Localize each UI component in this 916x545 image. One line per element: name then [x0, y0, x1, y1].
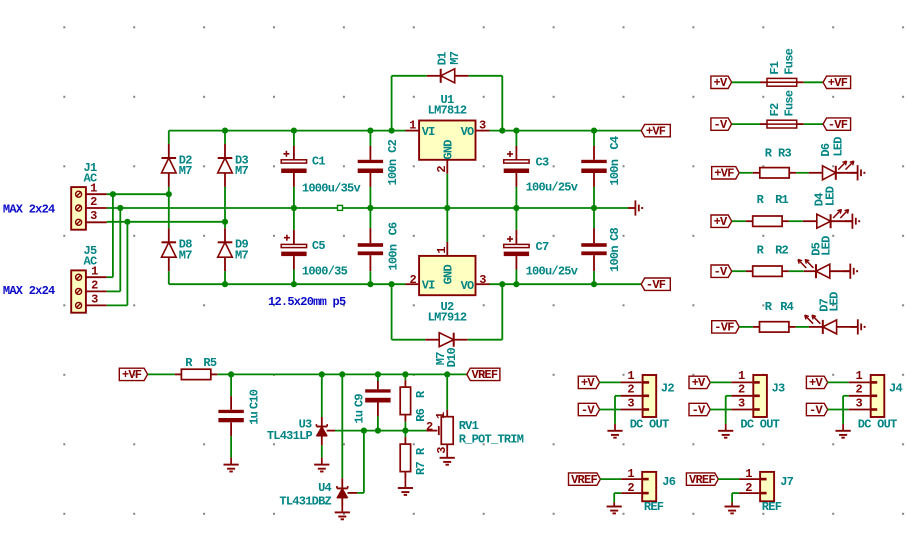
wire R4 in: [739, 326, 753, 328]
junction D1 left: [389, 128, 395, 134]
svg-text:-VF: -VF: [646, 278, 666, 292]
svg-text:VREF: VREF: [571, 473, 597, 487]
capacitor C6: [358, 208, 401, 271]
svg-text:RV1: RV1: [459, 419, 479, 433]
label +V (fuse F1): [711, 76, 732, 90]
ground D5: [843, 264, 857, 279]
label -V (fuse F2): [711, 118, 732, 132]
wire D2 anode: [168, 187, 170, 194]
wire AC2 mid rail: [107, 207, 628, 209]
svg-text:Fuse: Fuse: [782, 48, 796, 74]
wire J4.2 gnd: [843, 396, 871, 431]
no-connect square: [338, 205, 343, 210]
svg-text:VREF: VREF: [472, 368, 498, 382]
junction R6 top: [402, 371, 408, 377]
wire J2.2 gnd: [615, 396, 643, 431]
wire C10 gnd: [230, 436, 232, 464]
svg-text:3: 3: [91, 292, 98, 306]
label -V (R2 row): [711, 265, 732, 279]
wire R2-D5: [789, 270, 804, 272]
svg-text:R3: R3: [778, 146, 791, 160]
svg-text:100u/25v: 100u/25v: [526, 265, 578, 279]
svg-text:LED: LED: [831, 137, 845, 157]
wire R6 top: [404, 374, 406, 387]
wire R2 in: [732, 270, 746, 272]
wire R3 in: [739, 172, 753, 174]
wire RV1 pin1: [446, 374, 448, 416]
resistor R6: [400, 387, 428, 422]
svg-text:VREF: VREF: [689, 473, 715, 487]
junction C9 top: [375, 371, 381, 377]
svg-text:MAX 2x24: MAX 2x24: [3, 203, 55, 217]
svg-text:LED: LED: [820, 236, 834, 256]
svg-text:100u/25v: 100u/25v: [526, 180, 578, 194]
text 12.5x20mm p5: [268, 295, 346, 309]
junction C7 bottom: [513, 281, 519, 287]
connector J6: [627, 467, 675, 514]
junction D3 top: [222, 128, 228, 134]
svg-text:M7: M7: [179, 164, 192, 178]
svg-text:1: 1: [627, 369, 634, 383]
svg-text:DC OUT: DC OUT: [630, 417, 669, 431]
svg-text:J2: J2: [661, 381, 674, 395]
svg-text:2: 2: [90, 195, 97, 209]
svg-text:C2: C2: [386, 139, 400, 152]
label VREF (J7): [686, 473, 718, 487]
junction C3 top: [513, 128, 519, 134]
wire top rail: [169, 131, 406, 144]
junction R6/R7: [402, 428, 408, 434]
junction C9 bottom: [375, 428, 381, 434]
value 1000u/35v: [302, 182, 361, 196]
svg-text:C5: C5: [312, 239, 325, 253]
wire F2 in: [732, 123, 760, 125]
wire +VF-R5: [148, 373, 175, 375]
wire D3 anode: [224, 187, 226, 222]
svg-text:-VF: -VF: [714, 321, 734, 335]
svg-text:2: 2: [855, 383, 862, 397]
svg-text:C10: C10: [248, 389, 262, 409]
svg-text:J3: J3: [772, 381, 785, 395]
wire U4 cathode: [341, 374, 343, 488]
svg-text:M7: M7: [235, 248, 248, 262]
wire J6.2 gnd: [614, 493, 642, 506]
connector J4: [855, 369, 902, 431]
svg-text:3: 3: [479, 273, 486, 287]
svg-text:-V: -V: [714, 265, 728, 279]
svg-text:R1: R1: [775, 193, 788, 207]
label -V (J3): [689, 403, 710, 417]
regulator U2 LM7912: [406, 242, 490, 325]
svg-text:2: 2: [745, 481, 752, 495]
resistor R5: [175, 356, 217, 379]
svg-text:2: 2: [627, 383, 634, 397]
junction AC1/D2: [166, 191, 172, 197]
junction C2 top: [367, 128, 373, 134]
ground J7: [725, 507, 740, 514]
wire J3.1: [710, 381, 753, 383]
label -VF (fuse F2): [823, 118, 851, 132]
svg-text:1: 1: [434, 412, 448, 419]
ground U3: [314, 465, 329, 472]
wire R1 in: [732, 220, 746, 222]
svg-text:+VF: +VF: [828, 76, 848, 90]
wire J7.1: [718, 478, 760, 480]
wire U2 out rail: [490, 283, 642, 285]
wire RV1 pin3: [446, 444, 448, 458]
diode D1: [427, 51, 469, 83]
capacitor C8: [581, 208, 622, 272]
svg-text:12.5x20mm p5: 12.5x20mm p5: [268, 295, 346, 309]
junction D1 right: [499, 128, 505, 134]
ground R7: [398, 488, 413, 495]
junction D9 bottom: [222, 281, 228, 287]
svg-text:3: 3: [90, 209, 97, 223]
ground D7: [850, 319, 864, 334]
label +V (J4): [806, 376, 827, 390]
label +V (J3): [689, 376, 710, 390]
svg-text:3: 3: [627, 396, 634, 410]
junction J1.2: [117, 205, 123, 211]
svg-text:VO: VO: [461, 125, 474, 139]
svg-text:2: 2: [410, 273, 417, 287]
capacitor C4: [581, 131, 622, 187]
wire D10 right vertical: [468, 284, 503, 340]
svg-text:J7: J7: [780, 475, 793, 489]
svg-text:100n: 100n: [386, 159, 400, 185]
ground D6: [850, 165, 864, 180]
label -VF (R4 row): [712, 321, 740, 335]
wire U4 anode: [341, 498, 343, 513]
text MAX 2x24 (J5): [3, 284, 55, 298]
label -V (J4): [806, 403, 827, 417]
label -VF bottom: [641, 278, 670, 292]
junction C5 bottom: [291, 281, 297, 287]
wire J1.2-J5.2 vertical: [107, 208, 121, 291]
wire C6 bottom: [369, 271, 371, 284]
label VREF (J6): [569, 473, 601, 487]
ground J2: [607, 431, 622, 438]
label +V (R1 row): [711, 215, 732, 229]
junction C2 bottom: [367, 205, 373, 211]
svg-text:+VF: +VF: [714, 167, 734, 181]
wire D9 anode: [224, 271, 226, 284]
svg-text:M7: M7: [448, 51, 462, 64]
wire D1 left vertical: [392, 76, 427, 131]
svg-text:D10: D10: [445, 347, 459, 367]
junction C6 bottom: [367, 281, 373, 287]
wire F1 in: [732, 81, 760, 83]
svg-text:-V: -V: [581, 403, 595, 417]
wire C9 bottom: [377, 416, 379, 430]
svg-text:GND: GND: [442, 140, 456, 160]
wire J1.1-J5.1 vertical: [107, 194, 113, 277]
wire bottom rail: [169, 283, 406, 285]
junction U4 ref: [361, 428, 367, 434]
label VREF (right): [467, 368, 500, 382]
LED D4: [803, 186, 853, 228]
regulator U1 LM7812: [406, 93, 490, 174]
resistor R4: [753, 300, 796, 332]
label +VF top: [641, 124, 670, 138]
wire U3 ref: [327, 430, 427, 432]
wire U4 ref: [348, 431, 364, 493]
svg-text:VI: VI: [422, 279, 435, 293]
wire C5 bottom: [293, 270, 295, 285]
diode D10: [425, 333, 468, 368]
svg-text:C1: C1: [312, 155, 325, 169]
wire C8 bottom: [593, 271, 595, 284]
value 100u/25v (C3): [526, 180, 578, 194]
junction C4 top: [591, 128, 597, 134]
wire J1.3-J5.3 vertical: [107, 222, 128, 306]
resistor R3: [753, 146, 796, 178]
potentiometer RV1: [426, 412, 524, 454]
wire J4.1: [828, 381, 871, 383]
svg-text:M7: M7: [179, 248, 192, 262]
wire J2.3: [599, 409, 642, 411]
svg-text:1: 1: [435, 247, 449, 254]
ground mid rail: [628, 200, 642, 215]
wire AC1 rail: [107, 193, 169, 195]
resistor R1: [746, 193, 789, 226]
svg-text:1: 1: [409, 119, 416, 133]
svg-text:U4: U4: [318, 481, 331, 495]
ground U4: [335, 512, 350, 519]
svg-text:-V: -V: [714, 118, 728, 132]
svg-text:2: 2: [435, 166, 449, 173]
svg-text:1u: 1u: [352, 410, 366, 423]
junction J1.3: [124, 219, 130, 225]
junction U4 top: [339, 371, 345, 377]
svg-text:TL431DBZ: TL431DBZ: [279, 494, 331, 508]
svg-text:LED: LED: [827, 292, 841, 312]
wire C4 bottom: [593, 187, 595, 208]
capacitor C5: [281, 208, 325, 270]
junction D10 left: [389, 281, 395, 287]
diode D3: [218, 131, 249, 187]
svg-text:C8: C8: [608, 227, 622, 240]
capacitor C3: [504, 131, 549, 187]
wire D1 right vertical: [469, 76, 503, 131]
capacitor C9: [352, 374, 390, 423]
svg-text:+V: +V: [714, 215, 728, 229]
wire C7 bottom: [515, 270, 517, 285]
junction C1 top: [291, 128, 297, 134]
wire C2 bottom: [369, 187, 371, 208]
diode D2: [162, 144, 193, 187]
junction AC3/D3: [222, 219, 228, 225]
junction C1 bottom: [291, 205, 297, 211]
label +VF (fuse F1): [823, 76, 851, 90]
wire AC3 rail: [107, 221, 225, 223]
svg-text:3: 3: [738, 396, 745, 410]
svg-text:C3: C3: [536, 156, 549, 170]
junction C3 bottom: [513, 205, 519, 211]
junction RV1 top: [444, 371, 450, 377]
svg-text:-V: -V: [692, 403, 706, 417]
shunt reference U4 TL431DBZ: [279, 481, 347, 509]
svg-text:1: 1: [745, 467, 752, 481]
svg-text:1: 1: [90, 181, 97, 195]
wire R7 top: [404, 431, 406, 445]
svg-text:+V: +V: [714, 76, 728, 90]
svg-text:MAX 2x24: MAX 2x24: [3, 284, 55, 298]
capacitor C1: [281, 131, 325, 187]
value 1000/35: [302, 264, 348, 278]
wire R1-D4: [789, 220, 803, 222]
svg-text:R4: R4: [780, 300, 793, 314]
wire F1 out: [804, 81, 823, 83]
wire U2 gnd: [446, 208, 448, 242]
svg-text:100n: 100n: [386, 244, 400, 270]
svg-text:REF: REF: [762, 500, 782, 514]
wire R7 bottom: [404, 472, 406, 488]
text MAX 2x24 (J1): [3, 203, 55, 217]
wire J6.1: [600, 478, 642, 480]
ground J3: [718, 431, 733, 438]
diode D9: [218, 222, 249, 271]
svg-text:LM7912: LM7912: [428, 311, 467, 325]
svg-text:100n: 100n: [608, 159, 622, 185]
diode D8: [162, 194, 193, 271]
svg-text:+VF: +VF: [646, 124, 666, 138]
junction D10 right: [499, 281, 505, 287]
svg-text:2: 2: [426, 420, 433, 434]
ground C10: [224, 465, 239, 472]
junction U3 top: [319, 371, 325, 377]
resistor R7: [400, 444, 428, 475]
svg-text:DC OUT: DC OUT: [858, 417, 897, 431]
svg-text:2: 2: [738, 383, 745, 397]
wire R6 bottom: [404, 415, 406, 431]
svg-text:1: 1: [855, 369, 862, 383]
wire C1 bottom: [293, 187, 295, 208]
label +V (J2): [578, 376, 599, 390]
LED D5: [798, 236, 850, 278]
svg-text:3: 3: [479, 119, 486, 133]
wire D10 left vertical: [392, 284, 426, 340]
wire R3-D6: [796, 172, 809, 174]
wire J7.2 gnd: [732, 493, 760, 506]
svg-text:DC OUT: DC OUT: [740, 417, 779, 431]
svg-text:GND: GND: [442, 264, 456, 284]
capacitor C10: [218, 374, 261, 436]
svg-text:1000/35: 1000/35: [302, 264, 348, 278]
ground J6: [607, 507, 622, 514]
svg-text:TL431LP: TL431LP: [267, 429, 313, 443]
junction C4 bottom: [591, 205, 597, 211]
svg-text:2: 2: [627, 481, 634, 495]
svg-text:1: 1: [738, 369, 745, 383]
svg-text:REF: REF: [644, 500, 664, 514]
junction U1 gnd: [444, 205, 450, 211]
wire U1 gnd: [446, 174, 448, 208]
wire J4.3: [828, 409, 871, 411]
svg-text:C6: C6: [386, 222, 400, 235]
svg-text:F1: F1: [768, 61, 782, 74]
svg-text:-V: -V: [809, 403, 823, 417]
svg-text:100n: 100n: [608, 246, 622, 272]
svg-text:Fuse: Fuse: [782, 90, 796, 116]
wire U3 anode: [321, 436, 323, 465]
connector J7: [745, 467, 793, 514]
svg-text:LED: LED: [824, 186, 838, 206]
wire F2 out: [804, 123, 823, 125]
wire J3.2 gnd: [726, 396, 754, 431]
svg-text:J6: J6: [662, 475, 675, 489]
svg-text:R5: R5: [203, 356, 216, 370]
shunt reference U3 TL431LP: [267, 417, 327, 443]
LED D6: [809, 137, 858, 180]
svg-text:1: 1: [91, 264, 98, 278]
label -V (J2): [578, 403, 599, 417]
svg-text:R2: R2: [775, 244, 788, 258]
ground D4: [845, 214, 859, 229]
ground RV1: [440, 458, 455, 465]
capacitor C2: [358, 131, 401, 187]
svg-text:R_POT_TRIM: R_POT_TRIM: [459, 433, 524, 447]
svg-text:3: 3: [855, 396, 862, 410]
fuse F2: [760, 90, 804, 128]
svg-text:-VF: -VF: [828, 118, 848, 132]
svg-text:LM7812: LM7812: [428, 103, 467, 117]
LED D7: [805, 292, 858, 334]
svg-text:M7: M7: [235, 164, 248, 178]
fuse F1: [760, 48, 804, 86]
svg-text:+V: +V: [692, 376, 706, 390]
label +VF (R3 row): [712, 167, 740, 181]
wire J3.3: [710, 409, 753, 411]
capacitor C7: [504, 208, 549, 270]
svg-text:1u: 1u: [248, 411, 262, 424]
wire J2.1: [599, 381, 642, 383]
wire U3 cathode: [321, 374, 323, 426]
svg-text:J4: J4: [889, 381, 902, 395]
junction C8 bottom: [591, 281, 597, 287]
connector J5: [71, 244, 107, 313]
connector J2: [627, 369, 674, 431]
value 100u/25v (C7): [526, 265, 578, 279]
svg-text:R7: R7: [414, 462, 428, 475]
svg-text:+VF: +VF: [122, 368, 142, 382]
wire VREF rail: [217, 373, 466, 375]
label +VF (VREF circuit): [119, 368, 147, 382]
wire C3 bottom: [515, 187, 517, 208]
ground J4: [836, 431, 851, 438]
wire D8 anode: [168, 271, 170, 284]
svg-text:C4: C4: [608, 136, 622, 149]
wire R4-D7: [796, 326, 809, 328]
svg-text:C9: C9: [352, 394, 366, 407]
connector J1: [71, 161, 107, 230]
svg-text:VO: VO: [461, 279, 474, 293]
junction J1.1: [110, 191, 116, 197]
svg-text:VI: VI: [422, 125, 435, 139]
svg-text:+V: +V: [809, 376, 823, 390]
svg-text:F2: F2: [768, 103, 782, 116]
resistor R2: [746, 244, 789, 277]
junction C10 top: [228, 371, 234, 377]
wire U1 out rail: [490, 130, 642, 132]
svg-text:1: 1: [627, 467, 634, 481]
svg-text:C7: C7: [536, 240, 549, 254]
svg-text:+V: +V: [581, 376, 595, 390]
svg-text:2: 2: [91, 278, 98, 292]
svg-text:1000u/35v: 1000u/35v: [302, 182, 361, 196]
connector J3: [738, 369, 785, 431]
